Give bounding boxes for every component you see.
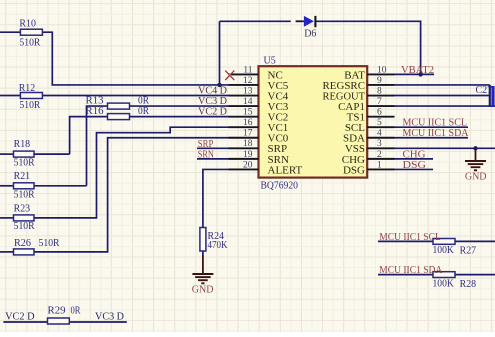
pin 5 SCL (345, 118, 395, 134)
IC U5 BQ76920 (259, 55, 368, 191)
svg-text:100K: 100K (433, 278, 455, 289)
pin 10 BAT (344, 65, 394, 81)
wire pin 8 REGOUT to C27 (395, 95, 490, 97)
node CHG (403, 149, 427, 160)
svg-text:MCU IIC1 SDA: MCU IIC1 SDA (403, 128, 470, 139)
svg-text:VC3 D: VC3 D (198, 96, 228, 107)
wire R26 left lead (0, 251, 14, 253)
pin 6 TS1 (347, 108, 395, 124)
svg-text:510R: 510R (14, 158, 35, 169)
wire pin 10 BAT VBAT2 (395, 73, 435, 75)
svg-text:C27: C27 (476, 85, 493, 96)
wire MCU IIC1 SDA to R28 (378, 274, 433, 276)
wire R18 right lead (34, 153, 70, 155)
pin 19 SRN (229, 150, 289, 166)
junction at VSS GND (473, 146, 477, 150)
svg-text:3: 3 (377, 139, 382, 149)
wire ALERT pin 20 to R24 (203, 169, 229, 227)
svg-text:15: 15 (243, 108, 253, 118)
svg-text:GND: GND (465, 172, 487, 183)
svg-text:12: 12 (243, 76, 253, 86)
svg-text:R13: R13 (86, 95, 104, 106)
pin 2 CHG (342, 150, 395, 166)
capacitor C27 (476, 85, 495, 107)
svg-text:510R: 510R (14, 221, 35, 232)
svg-text:R10: R10 (19, 18, 36, 29)
wire R26 to pin 17 VC0 (34, 138, 229, 252)
pin 3 VSS (345, 139, 395, 155)
wire pin 9 REGSRC to C27 (395, 84, 490, 86)
svg-text:R28: R28 (460, 279, 477, 290)
no-connect marker pin 11 (225, 71, 234, 81)
svg-text:8: 8 (377, 86, 382, 96)
svg-text:0R: 0R (138, 95, 149, 106)
svg-text:U5: U5 (264, 55, 276, 66)
node SRN (198, 150, 214, 161)
node DSG (403, 160, 427, 171)
wire R24 to GND (202, 251, 204, 255)
resistor R16 0R (86, 106, 150, 120)
node VC2_D (198, 107, 228, 118)
wire R10 left lead (0, 31, 20, 33)
wire R21 left lead (0, 185, 14, 187)
resistor R23 510R (14, 203, 35, 232)
node MCU_IIC1_SCL pin 5 (403, 118, 468, 129)
diode D6 (304, 16, 317, 40)
svg-text:VC3 D: VC3 D (95, 312, 125, 323)
node VC2_D bottom (5, 312, 35, 323)
wire to D6 anode (220, 20, 291, 22)
svg-text:510R: 510R (14, 189, 35, 200)
ground GND at VSS (465, 148, 487, 182)
wire R12 to pin 13 VC4 (42, 95, 228, 97)
svg-text:CHG: CHG (403, 149, 427, 160)
pin 18 SRP (229, 139, 288, 155)
wire pin 4 SDA stub (395, 137, 469, 139)
svg-text:14: 14 (243, 97, 253, 107)
svg-text:VC4 D: VC4 D (198, 85, 228, 96)
pin 12 VC5 (229, 76, 289, 92)
svg-text:ALERT: ALERT (268, 164, 303, 176)
svg-text:13: 13 (243, 86, 253, 96)
resistor R26 510R (14, 238, 60, 255)
node VBAT2 (401, 65, 434, 76)
pin 7 CAP1 (338, 97, 394, 113)
resistor R27 100K (433, 239, 477, 257)
wire VC2 D to R29 (3, 321, 47, 323)
wire R21 right lead (34, 185, 87, 187)
svg-text:MCU IIC1 SCL: MCU IIC1 SCL (403, 118, 468, 129)
pin 1 DSG (343, 160, 395, 176)
wire R10 to pin 12 VC5 (42, 32, 228, 85)
pin 14 VC3 (229, 97, 289, 113)
svg-text:10: 10 (377, 65, 387, 75)
wire R18 left lead (0, 153, 14, 155)
svg-text:R29: R29 (48, 306, 66, 317)
svg-text:R18: R18 (14, 139, 31, 150)
svg-text:DSG: DSG (343, 164, 365, 176)
pin 8 REGOUT (323, 86, 395, 102)
svg-text:VC2 D: VC2 D (198, 107, 228, 118)
D6 anode lead (296, 20, 304, 22)
resistor R10 510R (19, 18, 42, 48)
svg-text:MCU IIC1 SDA: MCU IIC1 SDA (379, 265, 443, 276)
svg-text:DSG: DSG (403, 160, 427, 171)
wire R23 left lead (0, 217, 14, 219)
svg-text:510R: 510R (19, 100, 40, 111)
wire R23 to pin 16 VC1 (34, 127, 229, 218)
svg-text:0R: 0R (71, 306, 81, 317)
svg-text:11: 11 (243, 65, 252, 75)
junction at VC5 node (217, 83, 221, 87)
node VC3_D (198, 96, 228, 107)
pin 17 VC0 (229, 129, 289, 145)
wire R29 to VC3 D (69, 321, 127, 323)
wire SRN stub pin 19 (197, 158, 229, 160)
node SRP (198, 139, 214, 150)
svg-text:BQ76920: BQ76920 (261, 181, 299, 192)
svg-text:SRN: SRN (198, 150, 214, 161)
svg-text:17: 17 (243, 129, 253, 139)
wire R27 right lead (455, 240, 495, 242)
resistor R29 0R (48, 306, 81, 324)
wire pin 5 SCL stub (395, 126, 469, 128)
svg-text:19: 19 (243, 150, 253, 160)
resistor R28 100K (433, 272, 477, 290)
pin 4 SDA (343, 129, 395, 145)
svg-text:510R: 510R (39, 238, 60, 249)
svg-text:6: 6 (377, 108, 382, 118)
node MCU_IIC1_SDA pin 4 (403, 128, 470, 139)
svg-text:510R: 510R (19, 37, 40, 48)
ground GND under R24 (192, 255, 214, 296)
wire R18 to R16 (70, 117, 108, 154)
pin 20 ALERT (229, 160, 303, 176)
pin 15 VC2 (229, 108, 289, 124)
wire pin 3 VSS to GND (395, 147, 495, 149)
node MCU_IIC1_SDA at R28 (379, 265, 443, 276)
node VC3_D bottom (95, 312, 125, 323)
svg-text:16: 16 (243, 118, 253, 128)
wire pin 7 CAP1 to C27 (395, 105, 495, 107)
wire CHG stub pin 2 (395, 158, 434, 160)
svg-text:R12: R12 (19, 83, 36, 94)
svg-text:1: 1 (377, 160, 382, 170)
svg-text:20: 20 (243, 160, 253, 170)
wire R12 left lead (0, 95, 20, 97)
svg-text:R21: R21 (14, 171, 31, 182)
pin 16 VC1 (229, 118, 289, 134)
svg-text:18: 18 (243, 139, 253, 149)
wire R13 to pin 14 VC3 (130, 105, 229, 107)
svg-text:GND: GND (192, 285, 214, 296)
svg-text:R16: R16 (86, 106, 104, 117)
wire D6 cathode to VBAT2 (316, 21, 420, 74)
svg-text:4: 4 (377, 129, 382, 139)
wire R21 to R13 (87, 106, 108, 186)
svg-text:R26: R26 (14, 238, 31, 249)
svg-text:SRP: SRP (198, 139, 214, 150)
wire MCU IIC1 SCL to R27 (378, 240, 433, 242)
node VC4_D (198, 85, 228, 96)
wire SRP stub pin 18 (197, 147, 229, 149)
svg-text:VC2 D: VC2 D (5, 312, 35, 323)
svg-text:100K: 100K (433, 245, 455, 256)
resistor R24 470K (200, 228, 228, 252)
resistor R13 0R (86, 95, 150, 109)
resistor R21 510R (14, 171, 35, 200)
svg-text:R27: R27 (460, 245, 477, 256)
svg-text:D6: D6 (304, 28, 316, 39)
svg-text:5: 5 (377, 118, 382, 128)
wire R28 right lead (455, 274, 495, 276)
svg-text:9: 9 (377, 76, 382, 86)
wire R16 to pin 15 VC2 (130, 116, 229, 118)
svg-text:2: 2 (377, 150, 382, 160)
pin 11 NC (229, 65, 283, 81)
resistor R12 510R (19, 83, 43, 111)
svg-text:MCU IIC1 SCL: MCU IIC1 SCL (379, 232, 441, 243)
svg-text:VBAT2: VBAT2 (401, 65, 434, 76)
svg-text:0R: 0R (138, 106, 149, 117)
wire D6 anode from VC5 node (219, 21, 221, 85)
junction at VBAT2 (418, 72, 422, 76)
svg-text:7: 7 (377, 97, 382, 107)
pin 13 VC4 (229, 86, 289, 102)
svg-text:R23: R23 (14, 203, 31, 214)
node MCU_IIC1_SCL at R27 (379, 232, 441, 243)
pin 9 REGSRC (323, 76, 395, 92)
wire DSG stub pin 1 (395, 168, 434, 170)
svg-text:470K: 470K (208, 240, 229, 251)
resistor R18 510R (14, 139, 35, 168)
